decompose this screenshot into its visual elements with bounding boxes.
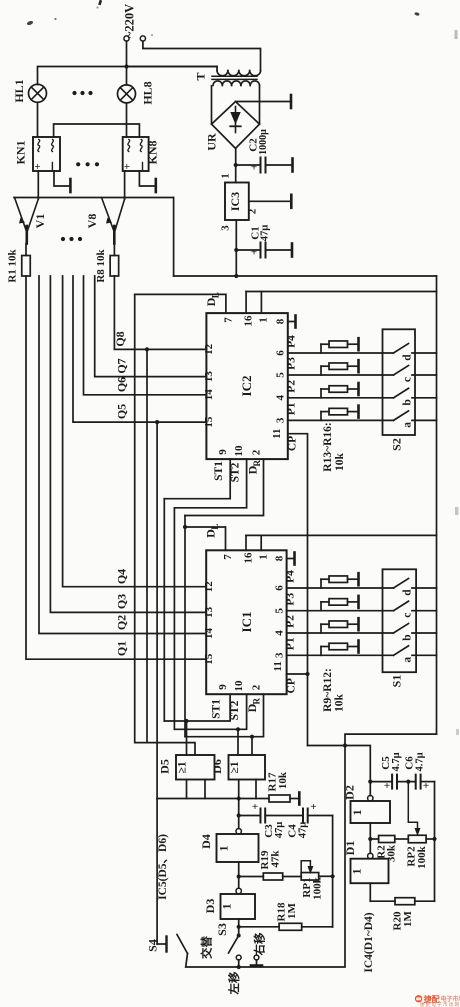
svg-text:IC4(D1~D4): IC4(D1~D4): [363, 912, 375, 972]
svg-text:9: 9: [217, 684, 229, 690]
wire D5 output a: [186, 780, 188, 799]
wire HL8 top: [126, 67, 128, 85]
svg-text:CP: CP: [286, 678, 298, 693]
potentiometer RP1: [301, 861, 319, 880]
pin 3 IC2: [275, 417, 287, 423]
label CP IC1: [286, 678, 298, 693]
ground R10: [357, 596, 360, 608]
label V1: [33, 214, 47, 229]
wire C4 right drop: [332, 816, 334, 928]
ground R16: [357, 406, 360, 418]
inverter D1: [350, 853, 389, 883]
wire bridge bottom to C2 node: [235, 148, 237, 165]
wire R20 row: [370, 900, 434, 902]
resistor R13 pulldown: [321, 341, 359, 353]
wire DL IC2 feedback column: [135, 294, 195, 755]
svg-text:D2: D2: [343, 785, 357, 800]
svg-text:捷 配 电 子 市 场 网 商 城: 捷 配 电 子 市 场 网 商 城: [420, 1001, 460, 1007]
svg-text:2: 2: [250, 449, 262, 455]
svg-text:S1: S1: [390, 675, 404, 688]
svg-text:+: +: [384, 780, 390, 792]
wire relay control link: [54, 124, 140, 137]
wire Q1 column: [26, 276, 206, 659]
svg-text:P3: P3: [286, 357, 298, 370]
wire ST2 IC2: [174, 459, 246, 508]
label R1 10k: [7, 248, 19, 282]
junction ST2 D6 tap: [236, 727, 240, 731]
ground R11: [357, 618, 360, 630]
svg-text:12: 12: [203, 343, 215, 355]
dots between lamps: [72, 91, 92, 95]
resistor R11 pulldown: [321, 621, 359, 633]
pin 8 IC2 ground: [288, 316, 296, 328]
label ST1 IC1: [211, 699, 223, 719]
label R19 47k: [259, 850, 282, 870]
pin 3 IC1: [274, 652, 286, 658]
net ~220V mains label: [123, 4, 137, 38]
scan speck 3: [96, 0, 102, 9]
svg-text:KN1: KN1: [14, 141, 28, 165]
junction RP2 right: [432, 837, 436, 841]
label R20 1M: [392, 910, 415, 930]
wire Vcc bus horizontal: [174, 275, 437, 277]
wire emitter bus drop: [173, 198, 175, 277]
svg-text:Q3: Q3: [115, 594, 129, 609]
svg-text:100k: 100k: [416, 845, 428, 869]
pin 11 IC2: [271, 428, 283, 438]
junction C3 row: [237, 813, 241, 817]
pin 11 IC1: [272, 661, 284, 671]
pin 7 IC1: [222, 554, 234, 560]
junction CP IC1: [305, 672, 309, 676]
switch S3 common: [237, 934, 241, 938]
svg-text:c: c: [402, 377, 414, 382]
svg-text:a: a: [402, 422, 414, 428]
svg-text:IC5(D5、D6): IC5(D5、D6): [157, 834, 169, 900]
wire bridge top to ground: [236, 101, 292, 103]
resistor R17: [269, 795, 299, 802]
label a S1: [402, 657, 414, 663]
junction R19 row: [237, 874, 241, 878]
label P3 IC1: [285, 593, 297, 606]
svg-text:14: 14: [203, 628, 215, 640]
scan speck 1: [26, 20, 33, 26]
junction C5 row: [368, 780, 372, 784]
svg-text:10k: 10k: [334, 452, 346, 471]
label jiaoti: [200, 936, 214, 959]
pin 5 IC1: [274, 607, 286, 613]
transistor V8: [102, 198, 125, 244]
resistor R16 pulldown: [321, 408, 359, 420]
wire Vcc to oscillator node: [345, 734, 437, 745]
lamp HL8: [118, 85, 136, 103]
wire Q8 column: [114, 276, 206, 349]
ground R12: [357, 641, 360, 653]
svg-text:4.7μ: 4.7μ: [391, 752, 402, 771]
IC IC1 box: [206, 550, 286, 694]
svg-text:+: +: [251, 162, 257, 174]
scan edge mark 2: [455, 507, 459, 515]
svg-text:P4: P4: [285, 570, 297, 583]
wire bottom bus: [186, 746, 345, 968]
svg-text:14: 14: [203, 389, 215, 401]
label ST2 IC2: [230, 462, 242, 482]
wire C2 row: [236, 164, 293, 166]
pin 1 IC3: [220, 173, 232, 179]
wire Q6 column: [84, 276, 207, 395]
svg-text:Q6: Q6: [115, 377, 129, 392]
wire mains left terminal down: [126, 41, 128, 66]
svg-text:16: 16: [243, 315, 255, 327]
svg-text:UR: UR: [205, 133, 219, 151]
label IC5: [157, 834, 169, 900]
svg-text:3: 3: [220, 225, 232, 231]
label D5: [158, 759, 172, 774]
svg-text:1M: 1M: [402, 910, 414, 927]
scan edge mark 1: [455, 30, 458, 39]
svg-text:D3: D3: [203, 899, 217, 914]
wire S2 a to bus: [412, 419, 437, 421]
contact S3 left-down: [236, 955, 241, 960]
label S4: [146, 939, 160, 952]
label P1 IC2: [286, 402, 298, 415]
svg-text:D4: D4: [199, 834, 213, 849]
svg-text:2: 2: [247, 208, 259, 214]
label P2 IC2: [286, 380, 298, 393]
junction D4 input node: [237, 796, 241, 800]
label d S2: [402, 354, 414, 361]
svg-text:R: R: [252, 459, 262, 466]
svg-text:ST1: ST1: [211, 699, 223, 719]
label P3 IC2: [286, 357, 298, 370]
wire C1 row: [236, 249, 292, 251]
svg-text:+: +: [32, 163, 44, 169]
svg-text:9: 9: [217, 449, 229, 455]
label Q5: [115, 404, 129, 419]
svg-text:7: 7: [223, 317, 235, 323]
wire S2 c to bus: [412, 374, 437, 376]
label S1: [390, 675, 404, 688]
ground KN8: [139, 171, 155, 192]
wire KN1 plus to V1 collector: [37, 171, 39, 199]
wire Q8 feedback column: [146, 349, 148, 742]
pin 8 IC1 ground: [287, 553, 295, 565]
resistor R1: [22, 244, 31, 277]
label DR IC2: [246, 459, 263, 474]
svg-text:L: L: [211, 292, 221, 298]
wire P row P3 IC1: [287, 610, 394, 612]
junction C2 node: [234, 163, 238, 167]
wire Q7 column: [95, 276, 207, 377]
wire S1 d to bus: [412, 587, 437, 589]
wire D4 input column: [238, 799, 240, 829]
svg-text:P2: P2: [285, 615, 297, 628]
svg-text:a: a: [402, 657, 414, 663]
junction C1 node: [234, 248, 238, 252]
svg-text:CP: CP: [287, 436, 299, 451]
wire D3 output: [238, 919, 240, 935]
svg-text:Q7: Q7: [115, 358, 129, 373]
wire Vcc bus right vertical: [436, 276, 438, 734]
ground IC3 pin2: [290, 195, 293, 208]
label ST1 IC2: [213, 461, 225, 481]
svg-text:1: 1: [350, 869, 364, 875]
svg-text:IC3: IC3: [228, 192, 242, 211]
svg-text:交替: 交替: [200, 936, 214, 959]
svg-text:1: 1: [220, 904, 234, 910]
ground R15: [357, 383, 360, 395]
wire ST2 IC1: [174, 694, 246, 729]
svg-text:+: +: [122, 163, 134, 169]
label P2 IC1: [285, 615, 297, 628]
svg-text:P3: P3: [285, 593, 297, 606]
svg-text:1000μ: 1000μ: [258, 129, 269, 155]
pin 2 IC3 wire: [249, 200, 291, 202]
pin 4 IC2: [275, 395, 287, 401]
svg-text:P4: P4: [286, 335, 298, 348]
pin 15 IC1: [203, 653, 215, 665]
junction Q8 feedback: [145, 347, 149, 351]
terminal mains left: [124, 36, 129, 41]
svg-text:5: 5: [274, 607, 286, 613]
contact S3 right: [254, 955, 259, 960]
label T: [194, 72, 208, 80]
label C2 1000u: [248, 129, 270, 155]
svg-text:S3: S3: [215, 923, 229, 936]
inverter D3: [220, 888, 256, 919]
label 3 IC3: [220, 225, 232, 231]
svg-text:10k: 10k: [334, 693, 346, 712]
svg-text:V1: V1: [33, 214, 47, 229]
svg-text:10k: 10k: [277, 771, 289, 789]
junction oscillator node: [343, 743, 347, 747]
resistor R14 pulldown: [321, 363, 359, 375]
transformer T primary coil: [217, 71, 261, 76]
wire Q3 column: [50, 276, 206, 612]
svg-text:10: 10: [233, 680, 245, 692]
svg-text:6: 6: [274, 585, 286, 591]
label D2: [343, 785, 357, 800]
label C6 4.7u: [404, 752, 426, 771]
svg-text:12: 12: [203, 581, 215, 593]
junction R18 row: [237, 925, 241, 929]
capacitor C2: [251, 158, 266, 174]
transformer secondary coil: [213, 81, 260, 86]
svg-text:≥1: ≥1: [177, 761, 189, 773]
switch box S1: [383, 569, 417, 672]
wire mains right to transformer: [143, 41, 261, 70]
ground bridge top: [290, 95, 293, 108]
label a S2: [402, 422, 414, 428]
label R17 10k: [267, 771, 290, 791]
svg-text:V8: V8: [85, 214, 99, 229]
svg-text:Q4: Q4: [115, 569, 129, 584]
ground R9: [357, 573, 360, 585]
resistor R15 pulldown: [321, 386, 359, 398]
wire P row P2 IC2: [288, 397, 394, 399]
svg-text:d: d: [402, 354, 414, 361]
svg-text:P2: P2: [286, 380, 298, 393]
junction R2 row: [368, 837, 372, 841]
switch S4 blade: [177, 935, 188, 954]
pin 10 IC2: [233, 445, 245, 457]
wire S1 b to bus: [412, 632, 437, 634]
wire Q4 column: [63, 276, 207, 587]
svg-text:b: b: [402, 399, 414, 405]
pin 14 IC2: [203, 389, 215, 401]
resistor R9 pulldown: [321, 576, 359, 588]
transistor V1: [15, 198, 39, 244]
svg-text:c: c: [402, 613, 414, 618]
junction DL IC1 on DR column: [183, 525, 187, 529]
wire DL IC2: [135, 294, 226, 313]
wire KN8 plus to V8 collector: [124, 171, 126, 199]
wire HL8 bottom: [126, 103, 128, 137]
svg-text:b: b: [402, 634, 414, 640]
ground KN1: [54, 171, 70, 192]
capacitor C5: [384, 775, 397, 792]
label D1: [343, 841, 357, 856]
IC IC2 box: [206, 313, 287, 459]
pin 12 IC2: [203, 343, 215, 355]
wire S1 c to bus: [412, 610, 437, 612]
relay KN1: [32, 137, 60, 171]
label C1 47u: [250, 225, 271, 242]
label IC4: [363, 912, 375, 972]
ground R13: [357, 338, 360, 350]
wire D5 output b: [204, 780, 206, 799]
wire node to D2 input: [345, 746, 370, 796]
svg-text:4.7μ: 4.7μ: [415, 752, 426, 771]
ground R17: [298, 793, 301, 805]
gate D6: [229, 755, 266, 780]
wire IC3 output down to Vcc bus: [235, 250, 237, 276]
junction C5 C6 mid tap: [406, 780, 410, 784]
svg-text:47μ: 47μ: [298, 822, 309, 839]
switch S2 b blade: [394, 388, 409, 398]
label Q4: [115, 569, 129, 584]
svg-text:4: 4: [275, 395, 287, 401]
wire P row P1 IC1: [287, 654, 394, 656]
wire Q5 S4 column: [156, 422, 158, 798]
lamp HL1: [29, 84, 47, 102]
svg-text:ST1: ST1: [213, 461, 225, 481]
label Q3: [115, 594, 129, 609]
switch S2 a blade: [394, 411, 409, 421]
svg-text:11: 11: [271, 428, 283, 438]
wire DL IC1: [185, 527, 226, 550]
junction RP1 column: [331, 874, 335, 878]
label S2: [390, 438, 404, 451]
svg-text:4: 4: [274, 630, 286, 636]
svg-text:D1: D1: [343, 841, 357, 856]
potentiometer RP2: [408, 835, 426, 843]
wire S2 d to bus: [412, 352, 437, 354]
label S3: [215, 923, 229, 936]
label DR IC1: [245, 697, 262, 712]
inverter D2: [350, 796, 390, 824]
svg-text:1: 1: [217, 846, 231, 852]
wire CP IC2: [288, 434, 308, 674]
pin 15 IC2: [203, 416, 215, 428]
svg-text:1: 1: [258, 554, 270, 560]
wire P row P2 IC1: [287, 632, 394, 634]
label d S1: [402, 589, 414, 596]
svg-text:+: +: [252, 801, 258, 813]
switch S1 d blade: [394, 579, 409, 589]
svg-text:d: d: [402, 589, 414, 596]
wire ST1 to D5 input: [186, 721, 188, 755]
wire D1 output: [369, 883, 371, 901]
label P4 IC2: [286, 335, 298, 348]
junction ST1 D5 tap: [184, 719, 188, 723]
label DL IC2: [204, 292, 221, 306]
label R9-R12: [322, 668, 346, 712]
svg-text:S4: S4: [146, 939, 160, 952]
label CP IC2: [287, 436, 299, 451]
label D4: [199, 834, 213, 849]
svg-text:KN8: KN8: [146, 141, 160, 165]
label C5 4.7u: [380, 752, 402, 771]
pin 3 IC3 wire: [235, 220, 237, 250]
svg-text:+: +: [251, 247, 257, 259]
junction DR D6 tap: [250, 735, 254, 739]
svg-text:Q5: Q5: [115, 404, 129, 419]
pin 1 IC2: [258, 317, 270, 323]
wire D2 output: [369, 823, 371, 853]
label P4 IC1: [285, 570, 297, 583]
wire ST1 IC2: [164, 459, 230, 499]
label C3 47u: [263, 822, 285, 839]
pin 1 IC1: [258, 554, 270, 560]
svg-text:R9~R12:: R9~R12:: [322, 668, 334, 712]
pin 6 IC1: [274, 585, 286, 591]
scan speck 2: [54, 18, 56, 20]
dots between relays: [76, 162, 99, 166]
label b S1: [402, 634, 414, 640]
label 8 IC2: [275, 318, 287, 324]
label Q6: [115, 377, 129, 392]
svg-text:6: 6: [275, 350, 287, 356]
label Q1: [115, 641, 129, 656]
wire secondary right to bridge: [259, 86, 261, 124]
svg-text:100k: 100k: [312, 876, 324, 900]
svg-text:ST2: ST2: [230, 462, 242, 482]
wire P row P4 IC1: [287, 587, 394, 589]
scan speck 4: [414, 12, 420, 16]
wire P row P4 IC2: [288, 352, 394, 354]
pin 13 IC1: [203, 606, 215, 618]
label HL8: [141, 81, 155, 104]
junction mains node: [124, 64, 128, 68]
switch S1 a blade: [394, 646, 409, 656]
label KN8: [146, 141, 160, 165]
svg-text:HL1: HL1: [12, 79, 26, 102]
label ST2 IC1: [229, 700, 241, 720]
dots between transistors: [61, 237, 82, 241]
wire P row P1 IC2: [288, 419, 394, 421]
junction S3 bus: [237, 965, 241, 969]
junction Vcc bus: [234, 274, 238, 278]
svg-text:8: 8: [275, 318, 287, 324]
wire C5 C6 row: [370, 781, 434, 783]
wire D6 output: [255, 780, 257, 799]
svg-text:10: 10: [233, 445, 245, 457]
regulator IC3: [225, 183, 249, 221]
wire DR column: [184, 516, 186, 737]
pin 2 IC2: [250, 449, 262, 455]
wire S4 column lower: [156, 799, 158, 945]
